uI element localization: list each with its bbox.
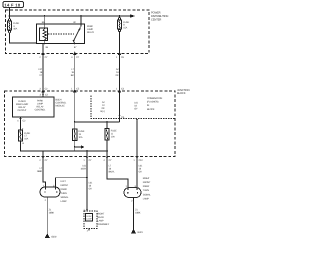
svg-text:RELAY: RELAY	[87, 31, 94, 34]
connector C6 crossing fuse2 output	[116, 52, 125, 58]
wire left turn feed	[56, 157, 88, 190]
label fused b+	[101, 101, 106, 113]
svg-text:COMBINATION: COMBINATION	[147, 97, 162, 100]
assembly bottom stub	[87, 229, 89, 233]
left lamp ground wire	[46, 197, 48, 234]
svg-text:TURN: TURN	[143, 189, 149, 192]
connector C7 crossing relay output	[71, 52, 80, 58]
svg-text:40A: 40A	[13, 28, 17, 31]
BCM entry arrow	[40, 94, 49, 97]
wire fused b+ into JB	[119, 91, 121, 122]
switch arm	[73, 26, 81, 41]
wire label L7 18BK	[37, 167, 43, 173]
wire label Z1 18BK right	[135, 208, 141, 214]
fuse F3 in JB	[18, 130, 22, 141]
connector C10 at JB bottom far right	[133, 155, 143, 162]
connector C5 crossing at JB top middle	[71, 88, 80, 92]
node bus-fuse2	[119, 15, 121, 17]
wire right turn feed	[136, 157, 138, 191]
wire left park feed	[43, 157, 46, 190]
drop to left lamp from rail	[42, 151, 44, 157]
terminal ring fuse1 top	[8, 19, 10, 21]
wire label L7 18 BK	[71, 68, 75, 77]
svg-text:G301: G301	[137, 231, 143, 234]
stub to fuse B	[106, 122, 108, 129]
BCM exit arrow C2	[17, 118, 26, 122]
wire to assembly	[86, 178, 88, 211]
wire label L61 18 GY assy	[89, 181, 93, 190]
node bus-tag	[9, 15, 11, 17]
svg-text:BLOCK: BLOCK	[177, 92, 186, 95]
junction block label	[177, 89, 190, 95]
right rear lamp assembly dashed box	[84, 211, 97, 229]
connector C2 crossing at JB top left	[39, 88, 48, 92]
page background	[0, 0, 196, 257]
svg-text:GY: GY	[134, 107, 138, 110]
svg-text:SIGNAL: SIGNAL	[143, 193, 152, 196]
right lamp ground wire	[133, 198, 135, 230]
assembly label	[98, 213, 110, 226]
wire bus to contact	[80, 16, 82, 26]
wire relay output inside JB	[74, 91, 76, 129]
wire bus to fuse1	[9, 16, 11, 19]
wire fuse3 to rail	[21, 141, 108, 151]
svg-text:14 F 18: 14 F 18	[4, 2, 20, 7]
svg-text:BK/YL: BK/YL	[109, 170, 116, 173]
left front park turn signal lamp	[40, 187, 60, 197]
body control module box	[13, 97, 55, 117]
rail to fuse B	[75, 121, 120, 123]
wire right park feed	[107, 157, 128, 191]
svg-text:18BK: 18BK	[135, 211, 141, 214]
wire turn feed right	[136, 121, 138, 157]
wire fused b+ PDC to JB	[119, 54, 121, 92]
svg-text:FRONT: FRONT	[61, 184, 69, 187]
svg-text:B(+): B(+)	[101, 110, 105, 113]
svg-text:GY: GY	[89, 187, 93, 190]
svg-text:SIGNAL: SIGNAL	[61, 196, 70, 199]
svg-text:LAMP: LAMP	[61, 200, 67, 203]
inner lamp rect	[86, 214, 93, 222]
svg-text:ASSEMBLY: ASSEMBLY	[98, 223, 110, 226]
body control module label	[56, 99, 67, 108]
svg-text:PARK/: PARK/	[61, 188, 68, 191]
ground G302	[45, 233, 58, 238]
node fuse B top	[106, 121, 108, 123]
wire fuse2 down to PDC edge	[119, 32, 121, 54]
terminal ring fuse2 bottom	[118, 30, 120, 32]
svg-text:OUTPUT: OUTPUT	[18, 109, 28, 112]
left lamp label	[61, 180, 70, 203]
fuse F1 value label	[13, 22, 19, 31]
node fuse A out	[74, 146, 76, 148]
node fuse B rail	[106, 150, 108, 152]
wire label L97 18 VT	[38, 68, 42, 77]
svg-text:15A: 15A	[123, 27, 127, 30]
wire coil control down to PDC edge	[42, 43, 44, 54]
svg-text:PARK: PARK	[86, 215, 92, 218]
svg-text:GY: GY	[139, 170, 143, 173]
svg-text:G302: G302	[51, 236, 57, 239]
right lamp label	[143, 177, 152, 201]
turn feed label inside JB	[134, 101, 138, 110]
svg-text:10A: 10A	[24, 137, 28, 140]
node switch-out	[74, 43, 76, 45]
node turn split	[86, 177, 88, 179]
svg-text:LAMP: LAMP	[86, 218, 92, 221]
svg-text:10A: 10A	[111, 135, 115, 138]
bus arrow	[130, 14, 135, 18]
BCM pin name right column	[35, 100, 46, 112]
assembly connector arrow	[83, 208, 88, 211]
wire label L7 18 BK/YL	[109, 164, 116, 173]
turn feed connector at inner box	[136, 119, 138, 121]
connector arrow on fused b+ wire	[119, 115, 125, 119]
power distribution center label	[151, 12, 168, 22]
fuse FA value label	[79, 130, 85, 139]
svg-text:MODULE: MODULE	[56, 105, 66, 108]
connector C3 crossing at JB top right	[116, 88, 125, 92]
inner dashed connector box	[91, 96, 175, 119]
svg-text:LAMP: LAMP	[143, 197, 149, 200]
connector C7 at JB bottom mid	[83, 155, 92, 162]
node rail-assembly	[86, 150, 88, 152]
svg-text:RIGHT: RIGHT	[143, 177, 150, 180]
BCM pin name left column	[16, 100, 29, 112]
wire fuse1 to relay	[10, 33, 37, 43]
fuse F2	[117, 20, 121, 29]
wire coil control PDC to JB	[42, 54, 44, 92]
wire coil to relay bottom	[44, 40, 46, 43]
relay label	[87, 25, 94, 34]
BCM output wire	[20, 117, 22, 131]
right front park turn signal lamp	[124, 188, 141, 198]
wire bus to fuse2	[119, 16, 121, 18]
wire label Z1 18BK left	[49, 208, 55, 214]
inner box text	[147, 97, 162, 111]
fuse FB value label	[111, 130, 117, 139]
fuse FA in JB	[73, 129, 77, 141]
fuse FB in JB	[105, 129, 109, 141]
wire bus to coil	[44, 16, 46, 28]
relay box	[37, 24, 85, 44]
wire label L61 18GY	[80, 165, 86, 171]
svg-text:10A: 10A	[79, 136, 83, 139]
bus wire	[10, 15, 131, 17]
mechanical link dashed	[48, 33, 74, 35]
node coil-out	[44, 43, 46, 45]
tag box 14 F 18	[3, 2, 24, 8]
connector C7 at JB bottom right	[103, 155, 112, 162]
power distribution center dashed box	[6, 10, 150, 54]
svg-text:TURN: TURN	[61, 192, 67, 195]
wire tag to bus	[9, 8, 11, 17]
svg-text:BLOCK: BLOCK	[147, 108, 155, 111]
fuse F3 value label	[24, 132, 30, 141]
svg-text:LEFT: LEFT	[61, 180, 67, 183]
wire label A2 18 PK	[116, 68, 120, 77]
svg-text:18BK: 18BK	[49, 211, 55, 214]
fuse F2 value label	[123, 21, 129, 30]
wire fuse A down	[74, 141, 76, 152]
svg-text:18GY: 18GY	[80, 168, 86, 171]
connector C7 crossing coil wire	[39, 52, 48, 58]
terminal ring fuse2 top	[118, 18, 120, 20]
junction block dashed box	[5, 91, 175, 157]
wire relay output PDC to JB	[74, 54, 76, 92]
ground G301	[131, 229, 144, 234]
drop to assembly from rail	[86, 151, 88, 157]
node fuse A top	[74, 121, 76, 123]
offpage arrow right	[75, 146, 85, 149]
svg-text:(FLASHER): (FLASHER)	[147, 101, 159, 104]
svg-text:CONTROL: CONTROL	[35, 109, 46, 112]
node bus-contact	[80, 15, 82, 17]
wire label L61 18 GY right	[139, 164, 143, 173]
wire JB top to BCM	[42, 91, 44, 97]
svg-text:FRONT: FRONT	[143, 181, 151, 184]
fuse F1 40A	[7, 21, 11, 30]
svg-text:CENTER: CENTER	[151, 18, 161, 21]
svg-text:18BK: 18BK	[37, 170, 43, 173]
node bus-coil	[44, 15, 46, 17]
wire fuse B down	[106, 140, 108, 157]
terminal ring fuse1 bottom	[8, 31, 10, 33]
connector C7 at JB bottom left	[39, 155, 48, 162]
svg-text:PARK/: PARK/	[143, 185, 150, 188]
wire pivot to relay bottom	[74, 41, 75, 44]
relay coil	[39, 28, 47, 41]
